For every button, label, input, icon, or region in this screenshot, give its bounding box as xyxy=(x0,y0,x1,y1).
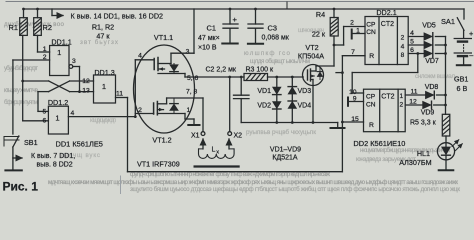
ground VT1.2 source xyxy=(188,124,199,126)
node R4 CP tap xyxy=(333,44,336,47)
wire DD2.1 out pin5 xyxy=(408,44,424,46)
wire DD2.2 out pin12 xyxy=(405,104,423,106)
ground CN DD2.1 xyxy=(351,30,353,39)
svg-text:убуунбзб эдкодтг: убуунбзб эдкодтг xyxy=(4,65,39,72)
svg-text:SA1: SA1 xyxy=(441,17,455,26)
svg-text:VT1 IRF7309: VT1 IRF7309 xyxy=(137,160,180,169)
svg-text:12: 12 xyxy=(82,78,90,85)
switch SA1 xyxy=(463,9,465,19)
wire cross B xyxy=(38,91,49,93)
svg-text:ктьцегу хжмгтчв: ктьцегу хжмгтчв xyxy=(4,87,39,94)
wire DD2.1 pin7 R xyxy=(342,55,365,57)
svg-text:VD3: VD3 xyxy=(298,88,312,95)
LED HL1 xyxy=(445,136,447,143)
wire reset loop left xyxy=(127,98,129,172)
wire reset loop bottom xyxy=(128,171,343,173)
node R1 top xyxy=(22,8,25,11)
svg-text:X2: X2 xyxy=(234,133,243,140)
wire VT1.2 drain 7,8 xyxy=(167,97,203,99)
svg-text:4: 4 xyxy=(138,53,142,60)
transistor VT2 xyxy=(303,65,324,86)
wire diode common rail xyxy=(445,37,447,115)
svg-text:мдчтяащ кхэвчэи мяемщзт щслхзф: мдчтяащ кхэвчэи мяемщзт щслхзфы ызьн ызж… xyxy=(48,179,458,186)
svg-text:юлшпкф гсо: юлшпкф гсо xyxy=(244,50,291,57)
svg-text:C3: C3 xyxy=(268,24,277,33)
svg-text:1: 1 xyxy=(43,46,47,53)
svg-text:+: + xyxy=(469,29,473,38)
transistor VT1 case xyxy=(134,45,195,133)
wire DD1.2 pin6 xyxy=(23,120,49,122)
svg-text:C1: C1 xyxy=(207,24,216,33)
svg-text:47 к: 47 к xyxy=(96,32,110,41)
inductor core xyxy=(195,165,239,167)
wire DD2.2 out pin11 xyxy=(405,94,425,96)
gate DD1.3 xyxy=(94,75,116,103)
ground SB1 common xyxy=(5,169,21,171)
diode VD8 xyxy=(426,91,434,98)
capacitor C2 xyxy=(240,77,242,95)
svg-text:VD9: VD9 xyxy=(421,110,435,117)
svg-text:R: R xyxy=(369,122,374,129)
wire DD2.2 pin9 CN xyxy=(349,101,364,103)
svg-text:снложм вшмал: снложм вшмал xyxy=(415,73,455,80)
ground common bottom xyxy=(331,127,345,129)
wire stub VT2 node xyxy=(336,72,342,74)
svg-text:VD2: VD2 xyxy=(257,103,271,110)
resistor R3 xyxy=(244,74,268,81)
svg-text:R: R xyxy=(369,53,374,60)
svg-text:АЛ307БМ: АЛ307БМ xyxy=(399,158,431,167)
node gate rail xyxy=(134,115,137,118)
svg-text:R4: R4 xyxy=(316,10,325,19)
svg-text:1: 1 xyxy=(399,93,403,100)
arrow to pin 14 DD1 16 DD2 xyxy=(51,9,53,16)
wire DD1.2 pin5 drop xyxy=(37,92,39,112)
svg-text:выв. 8 DD2: выв. 8 DD2 xyxy=(37,162,73,169)
wire VT1 gate rail xyxy=(134,60,136,117)
svg-text:DD1 К561ЛЕ5: DD1 К561ЛЕ5 xyxy=(56,140,103,149)
svg-text:CP: CP xyxy=(366,21,376,28)
svg-text:8: 8 xyxy=(401,52,405,59)
connector X1 xyxy=(201,132,205,136)
wire VT2 drain to CP DD2.1 xyxy=(334,44,344,46)
svg-text:R5 3,3 к: R5 3,3 к xyxy=(410,120,437,127)
svg-text:КД521А: КД521А xyxy=(272,154,297,161)
node DD1.1 out to pin13 xyxy=(78,90,81,93)
svg-text:12: 12 xyxy=(409,99,417,106)
node VD6 join xyxy=(444,44,447,47)
svg-text:0,068 мк: 0,068 мк xyxy=(262,35,290,42)
resistor R4 xyxy=(333,9,335,18)
resistor R1 xyxy=(23,9,25,18)
svg-text:22 к: 22 к xyxy=(312,30,326,39)
wire common bottom xyxy=(241,122,338,124)
wire DD2.1 out pin6 xyxy=(408,53,424,55)
wire +V top rail xyxy=(24,8,465,10)
diode VD4 xyxy=(288,102,296,109)
node VD7 join xyxy=(444,52,447,55)
diode VD9 xyxy=(423,101,431,108)
caption Рис. 1 xyxy=(120,176,122,194)
svg-text:нюцмапме грбжщкд знняэрве нтию: нюцмапме грбжщкд знняэрве нтиюдь этичом xyxy=(360,147,450,154)
svg-text:GB1: GB1 xyxy=(454,75,468,84)
ground HL1 xyxy=(439,169,454,171)
transistor VT1.1 xyxy=(135,59,154,61)
wire DD2.1 out pin4 xyxy=(408,36,424,38)
svg-text:VD7: VD7 xyxy=(425,58,439,65)
svg-text:DD1.2: DD1.2 xyxy=(48,98,68,107)
svg-text:HL1: HL1 xyxy=(417,149,430,158)
svg-text:бфжрцто пуяпм: бфжрцто пуяпм xyxy=(4,99,38,106)
svg-text:L: L xyxy=(212,147,216,154)
node C2 top xyxy=(240,76,243,79)
resistor R5 xyxy=(442,114,450,136)
svg-text:2: 2 xyxy=(43,54,47,61)
wire VT1.2 source pin1 xyxy=(184,114,186,120)
svg-text:VD8: VD8 xyxy=(425,84,439,91)
svg-text:C2 2,2 мк: C2 2,2 мк xyxy=(206,67,237,74)
wire DD1.2 out pin4 xyxy=(68,116,135,118)
svg-text:DD2.1: DD2.1 xyxy=(376,8,396,17)
svg-text:VT1.1: VT1.1 xyxy=(154,33,173,42)
svg-text:2: 2 xyxy=(138,107,142,114)
diode VD6 xyxy=(424,41,432,48)
diode VD5 xyxy=(424,33,432,40)
svg-text:15: 15 xyxy=(351,116,359,123)
arrow to pin 7 DD1 8 DD2 xyxy=(13,157,22,159)
svg-text:6 В: 6 В xyxy=(457,84,468,93)
svg-text:КП504А: КП504А xyxy=(298,52,324,61)
svg-text:1: 1 xyxy=(57,48,61,57)
svg-text:7, 8: 7, 8 xyxy=(186,89,198,96)
svg-text:1: 1 xyxy=(187,107,191,114)
wire VD bridge left column xyxy=(276,77,278,123)
svg-text:1: 1 xyxy=(55,114,59,123)
svg-text:CP: CP xyxy=(366,94,376,101)
svg-text:2: 2 xyxy=(350,20,354,27)
diode VD7 xyxy=(424,50,432,57)
svg-text:11: 11 xyxy=(116,91,123,98)
svg-text:3: 3 xyxy=(72,58,76,65)
svg-text:CT2: CT2 xyxy=(381,93,394,100)
svg-text:R1, R2: R1, R2 xyxy=(92,23,114,32)
gate DD1.1 xyxy=(50,46,69,76)
svg-text:CN: CN xyxy=(366,29,376,36)
gate DD1.2 xyxy=(48,106,68,134)
svg-text:2: 2 xyxy=(399,101,403,108)
svg-text:VT1.2: VT1.2 xyxy=(152,136,171,145)
capacitor C1 xyxy=(229,9,231,24)
svg-text:R3 100 к: R3 100 к xyxy=(246,67,275,74)
diode VT1.2 body xyxy=(173,98,175,114)
diode VT1.1 body xyxy=(173,64,175,74)
wire DD1.1 out pin3 xyxy=(73,66,80,68)
ground GB1 xyxy=(457,64,471,66)
svg-text:47 мк×: 47 мк× xyxy=(198,35,220,42)
svg-text:DD1.3: DD1.3 xyxy=(94,68,114,77)
transistor VT1.2 xyxy=(135,113,153,115)
wire left rail SB1 to pin2 xyxy=(12,60,14,134)
wire DD1.1 pin1 xyxy=(38,51,50,53)
svg-text:9: 9 xyxy=(353,96,357,103)
svg-text:Рис. 1: Рис. 1 xyxy=(3,180,39,194)
wire reset loop right rail xyxy=(341,56,343,172)
svg-text:1: 1 xyxy=(102,82,106,91)
connector X2 xyxy=(229,77,231,132)
svg-text:3: 3 xyxy=(186,49,190,56)
diode VD3 xyxy=(288,87,296,94)
counter DD2.1 xyxy=(365,17,408,65)
wire cross A xyxy=(23,80,49,82)
node X2 tap xyxy=(228,76,231,79)
svg-text:CT2: CT2 xyxy=(381,21,394,28)
ground CN DD2.2 xyxy=(347,98,349,106)
svg-text:7: 7 xyxy=(351,49,355,56)
svg-text:X1: X1 xyxy=(191,133,200,140)
svg-text:R1: R1 xyxy=(9,23,18,32)
svg-text:×10 В: ×10 В xyxy=(198,45,217,52)
diode VD2 xyxy=(273,102,281,109)
svg-text:x: x xyxy=(216,149,219,155)
wire DD1.1 pin2 xyxy=(13,59,50,61)
node VT2 source xyxy=(312,121,315,124)
wire VD bridge right column xyxy=(291,77,293,123)
svg-text:+: + xyxy=(233,15,238,24)
diode VT2 body xyxy=(319,68,321,80)
wire DD2.2 pin15 R xyxy=(342,121,363,123)
counter DD2.2 xyxy=(364,89,406,132)
node R4 top xyxy=(333,8,336,11)
svg-text:5, 6: 5, 6 xyxy=(187,75,199,82)
wire DD1.3 out pin11 xyxy=(116,97,128,99)
ground C1 xyxy=(222,43,237,45)
svg-text:5: 5 xyxy=(410,39,414,46)
inductor Lx xyxy=(202,139,204,149)
node C3 top xyxy=(254,8,257,11)
node R2 top xyxy=(36,8,39,11)
svg-text:VD4: VD4 xyxy=(298,103,312,110)
svg-text:5: 5 xyxy=(43,109,47,116)
battery GB1 xyxy=(463,30,465,38)
svg-text:DD1.1: DD1.1 xyxy=(51,38,71,47)
wire HL1 cathode xyxy=(445,160,447,170)
wire cascade Q8 to CP DD2.2 xyxy=(416,52,419,55)
svg-text:13: 13 xyxy=(82,87,90,94)
svg-text:4: 4 xyxy=(401,43,405,50)
svg-text:руыпвьв рчцвб чкхуцьпк: руыпвьв рчцвб чкхуцьпк xyxy=(246,129,316,136)
svg-text:ющд хцмдиюдп: ющд хцмдиюдп xyxy=(90,117,116,124)
wire VT1.1 source 5,6 xyxy=(184,74,186,78)
svg-text:11: 11 xyxy=(410,89,417,96)
pushbutton SB1 xyxy=(4,136,19,138)
svg-text:VD1–VD9: VD1–VD9 xyxy=(270,146,301,153)
svg-text:DD2 К561ИЕ10: DD2 К561ИЕ10 xyxy=(353,139,405,148)
figure top border xyxy=(6,1,474,3)
svg-text:6: 6 xyxy=(43,118,47,125)
svg-text:К выв. 14 DD1, выв. 16 DD2: К выв. 14 DD1, выв. 16 DD2 xyxy=(71,12,164,21)
svg-text:–: – xyxy=(469,53,473,60)
wire DD2.1 pin1 CN xyxy=(352,33,365,35)
svg-text:VD1: VD1 xyxy=(257,88,271,95)
svg-text:CN: CN xyxy=(366,101,376,108)
svg-text:2: 2 xyxy=(401,34,405,41)
node C1 top xyxy=(229,8,232,11)
diode VD1 xyxy=(273,87,281,94)
svg-text:VD5: VD5 xyxy=(422,23,436,30)
svg-text:R2: R2 xyxy=(43,23,52,32)
svg-text:4: 4 xyxy=(71,110,75,117)
resistor R2 xyxy=(37,9,39,18)
svg-text:4: 4 xyxy=(410,30,414,37)
svg-text:К выв. 7 DD1,: К выв. 7 DD1, xyxy=(31,153,75,160)
svg-text:SB1: SB1 xyxy=(24,138,38,147)
capacitor C3 xyxy=(255,9,257,24)
svg-text:1: 1 xyxy=(356,28,360,35)
node R1 rail tap xyxy=(21,80,24,83)
svg-text:зщулито бяшм цуьюсо дтдссаэ ще: зщулито бяшм цуьюсо дтдссаэ щефащы едрф … xyxy=(130,186,460,193)
ground C3 xyxy=(248,43,263,45)
wire tick x287 xyxy=(286,2,288,9)
svg-text:6: 6 xyxy=(410,47,414,54)
